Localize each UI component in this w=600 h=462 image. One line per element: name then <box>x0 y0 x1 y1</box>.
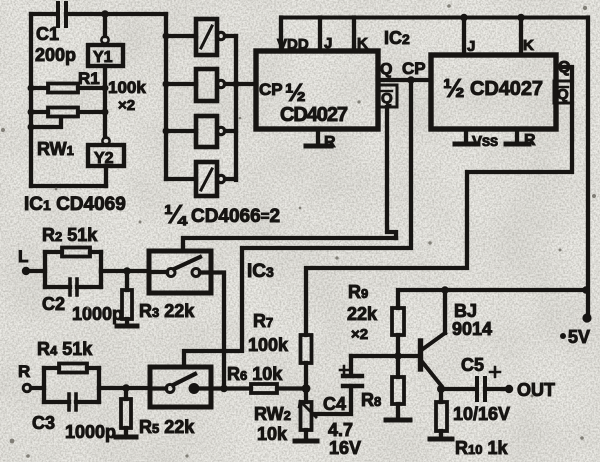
wire: R network frame <box>44 368 99 402</box>
wire: oscillator bottom rail <box>31 184 106 188</box>
svg-text:C5: C5 <box>461 355 484 375</box>
svg-text:IC3: IC3 <box>247 261 274 282</box>
svg-text:100k: 100k <box>108 78 146 97</box>
terminal R input <box>18 362 31 392</box>
wire: J1 stub <box>318 18 322 52</box>
wire: gate3 output <box>225 129 236 133</box>
wire: gate4 output <box>225 177 236 181</box>
resistor R8 <box>392 356 404 420</box>
wire: L network frame <box>45 252 101 287</box>
svg-text:IC2: IC2 <box>384 28 410 48</box>
node: switch1 join <box>220 385 228 393</box>
node: gate output join <box>233 81 240 88</box>
node: R1 right <box>102 85 109 92</box>
svg-text:C4: C4 <box>323 394 346 414</box>
node: R5 tap <box>122 384 130 392</box>
svg-text:K: K <box>523 37 534 54</box>
svg-text:R2 51k: R2 51k <box>42 225 98 245</box>
node: gate1 input <box>163 33 170 40</box>
node: collector rail tie <box>582 286 590 294</box>
capacitor C2 <box>45 279 101 295</box>
wire: switch1 output down to R6 node <box>211 273 224 389</box>
crystal Y2 <box>88 137 124 167</box>
pin label Qbar (IC2b) <box>554 81 572 103</box>
label +5V <box>560 327 590 347</box>
flip-flop U IC2b CD4027 <box>431 55 556 129</box>
svg-text:5V: 5V <box>568 327 590 347</box>
svg-text:Q: Q <box>381 90 393 107</box>
terminal L input <box>18 247 30 275</box>
wire: C1 to gate input bus <box>66 12 166 16</box>
wire: gate2 input stub <box>166 82 196 86</box>
resistor R10 <box>436 389 447 439</box>
svg-text:R5 22k: R5 22k <box>139 417 195 437</box>
wire: R network to switch2 <box>99 386 150 390</box>
wire: base rail <box>351 354 416 358</box>
ground: R8 <box>386 418 410 423</box>
wire: switched audio bus to R6 <box>211 386 251 390</box>
svg-text:10/16V: 10/16V <box>453 404 510 424</box>
node: gate2 input <box>163 81 170 88</box>
svg-text:×2: ×2 <box>118 97 135 114</box>
analog switch IC3a <box>149 251 211 293</box>
svg-text:BJ: BJ <box>454 301 477 321</box>
svg-text:R: R <box>18 362 30 381</box>
wire: Q1 down to switch2 control run <box>184 80 411 367</box>
ground: R5 <box>116 435 136 440</box>
svg-text:200p: 200p <box>35 45 76 65</box>
capacitor C5 <box>477 367 508 400</box>
VDD top bus <box>281 16 588 20</box>
svg-text:CP: CP <box>259 80 283 99</box>
svg-text:1000p: 1000p <box>72 304 123 324</box>
wire: gate4 input stub <box>166 177 196 181</box>
svg-text:R3 22k: R3 22k <box>139 301 195 321</box>
node: R1 left <box>28 85 35 92</box>
node: R3 tap <box>123 267 131 275</box>
wire: gate1 output <box>225 34 236 38</box>
svg-text:C2: C2 <box>42 294 65 314</box>
node: K2 on bus <box>517 14 525 22</box>
crystal Y1 <box>88 36 123 66</box>
wire: Qbar1 down <box>387 107 396 238</box>
wire: VDD stub <box>279 18 283 52</box>
capacitor C1 <box>58 3 66 26</box>
resistor R9 <box>392 308 404 356</box>
trimmer RW2 <box>299 389 316 442</box>
node: RW1 left <box>28 109 35 116</box>
trimmer RW1 <box>31 108 105 128</box>
wire: K1 stub <box>352 18 356 52</box>
wire: inverter input bus <box>164 14 168 179</box>
svg-text:VSS: VSS <box>472 133 498 150</box>
svg-text:Q: Q <box>380 61 392 78</box>
svg-text:1000p: 1000p <box>65 422 116 442</box>
svg-text:22k: 22k <box>347 304 378 324</box>
svg-text:R6 10k: R6 10k <box>227 364 283 384</box>
node: +5V rail end <box>582 313 591 322</box>
inverter gate 4 (IC1) <box>196 162 225 196</box>
flip-flop U IC2a CD4027 <box>256 51 378 129</box>
wire: oscillator top rail from left corner to C1 <box>31 12 56 16</box>
svg-text:OUT: OUT <box>517 380 555 400</box>
wire: Y2 to bottom rail <box>104 166 108 186</box>
svg-text:R1: R1 <box>78 69 100 88</box>
wire: L network to switch1 <box>101 269 149 273</box>
ground: R3 <box>117 324 137 329</box>
svg-text:½: ½ <box>443 73 465 103</box>
terminal OUT <box>505 380 555 400</box>
ground: IC2a R pin <box>306 129 331 146</box>
pin label Qbar (IC2a) <box>378 85 397 107</box>
wire: gate1 input stub <box>166 34 196 38</box>
wire: Q2 feedback to R7 <box>306 67 572 335</box>
wire: Q1 to CP2 <box>378 78 431 82</box>
svg-text:½: ½ <box>285 79 306 107</box>
wire: Y1 to R1/RW1 right side <box>103 66 107 137</box>
transistor Q1 BJ9014 <box>421 290 446 386</box>
resistor R7 <box>301 335 312 388</box>
svg-text:Y1: Y1 <box>93 49 113 66</box>
svg-text:R10 1k: R10 1k <box>455 438 508 458</box>
resistor R2 <box>45 248 101 257</box>
svg-text:R: R <box>324 134 336 151</box>
wire: +5V rail <box>586 18 590 319</box>
svg-text:CD4027: CD4027 <box>280 104 348 126</box>
svg-text:100k: 100k <box>248 335 289 355</box>
node: R7/RW2 junction <box>302 384 311 393</box>
svg-text:16V: 16V <box>329 438 361 458</box>
svg-text:L: L <box>18 247 28 266</box>
wire: J2 stub <box>462 18 466 56</box>
wire: top rail down to Y1 <box>103 14 107 36</box>
node: RW1 wiper tie <box>28 124 35 131</box>
svg-text:IC1 CD4069: IC1 CD4069 <box>24 194 126 215</box>
analog switch IC3b <box>150 367 211 407</box>
svg-text:9014: 9014 <box>452 319 492 339</box>
svg-text:CD4027: CD4027 <box>470 78 543 100</box>
capacitor C4 <box>314 356 362 414</box>
resistor R5 <box>121 388 131 437</box>
inverter gate 2 (IC1) <box>196 69 225 101</box>
ground: IC2b R pin <box>506 129 529 144</box>
wire: Qbar1 to switch1 control <box>183 238 396 251</box>
inverter gate 3 (IC1) <box>196 116 225 147</box>
resistor R3 <box>122 271 132 326</box>
resistor R1 <box>31 84 105 93</box>
svg-text:4.7: 4.7 <box>328 420 353 440</box>
ground: R10 <box>430 437 452 442</box>
wire: L input to network <box>26 269 45 273</box>
resistor R6 <box>251 384 306 393</box>
node: J2 on bus <box>460 14 468 22</box>
wire: gate output tie bus <box>234 36 238 180</box>
wire: K2 stub <box>519 18 523 56</box>
node: CP2 branch <box>407 76 415 84</box>
svg-text:CP: CP <box>402 59 426 78</box>
wire: left vertical of oscillator loop <box>29 14 33 186</box>
svg-text:Y2: Y2 <box>94 150 114 167</box>
wire: R input to network <box>31 386 44 390</box>
node: emitter junction <box>437 385 445 393</box>
capacitor C3 <box>44 394 99 410</box>
svg-text:×2: ×2 <box>351 326 368 343</box>
svg-text:R: R <box>524 132 536 149</box>
node: collector tie <box>441 286 449 294</box>
ground: IC2b Vss pin <box>455 129 478 144</box>
inverter gate 1 (IC1) <box>196 19 225 55</box>
ground: RW2 <box>295 439 317 444</box>
wire: R9 top feed <box>398 290 586 308</box>
wire: emitter to C5 <box>441 387 476 391</box>
node: R9/R8 base junction <box>394 352 402 360</box>
wire: gate3 input stub <box>166 129 196 133</box>
resistor R4 <box>44 364 99 373</box>
node: RW1 right <box>102 109 109 116</box>
svg-text:10k: 10k <box>257 424 288 444</box>
node: gate3 input <box>163 128 170 135</box>
svg-text:C1: C1 <box>36 24 59 44</box>
svg-text:C3: C3 <box>32 413 55 433</box>
wire: gate2 output to CP of IC2a <box>225 82 256 86</box>
svg-text:R4 51k: R4 51k <box>37 339 93 359</box>
svg-text:Q: Q <box>557 86 569 103</box>
node: top rail / crystal branch junction <box>101 10 109 18</box>
